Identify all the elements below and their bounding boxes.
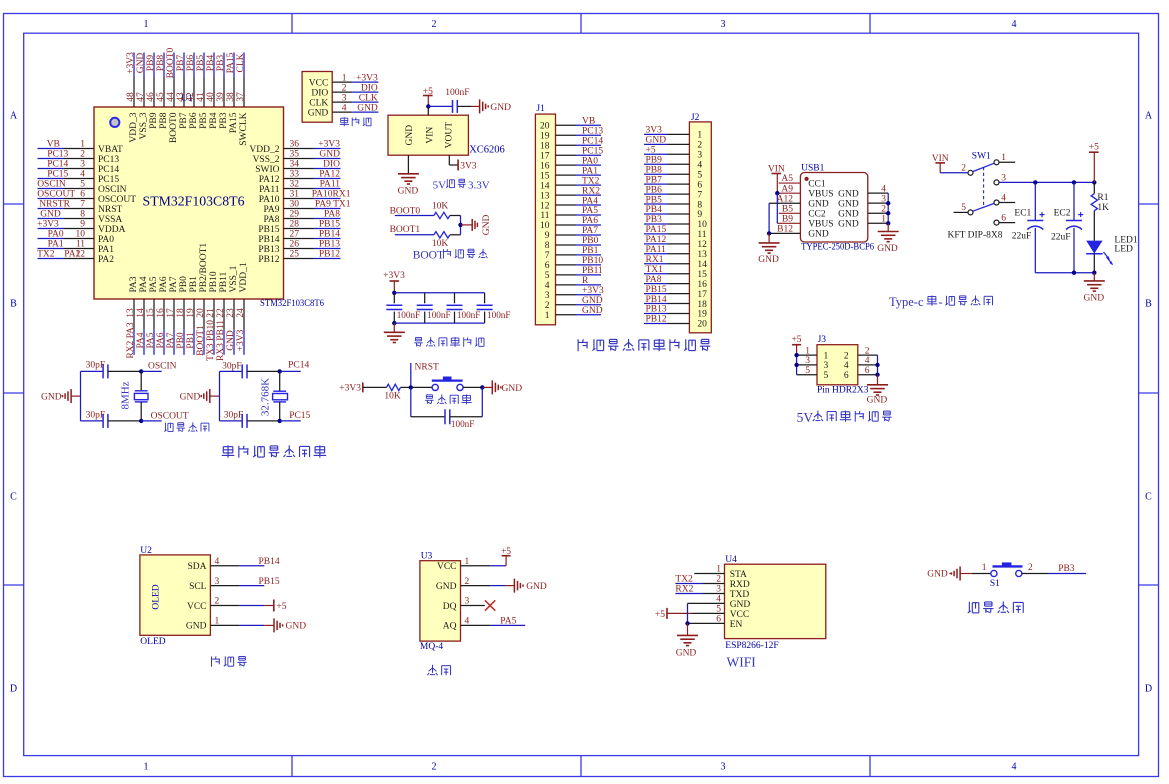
svg-text:PA15: PA15	[229, 112, 239, 133]
J3 right pins wires	[858, 346, 880, 377]
caption BOOT setting circuit	[413, 249, 488, 262]
U1 pin 45 (PB8) top	[156, 53, 169, 129]
U1 pin 23 (VSS_1) bottom	[226, 265, 239, 354]
svg-text:2: 2	[716, 575, 721, 585]
svg-text:3: 3	[805, 356, 810, 366]
svg-text:B: B	[1145, 299, 1152, 310]
svg-text:LED: LED	[1114, 245, 1133, 255]
USB1 pin A9 wire	[777, 184, 800, 194]
svg-text:TX3 PB10: TX3 PB10	[206, 320, 216, 361]
U1 pin 28 (PB15) right	[258, 220, 340, 235]
svg-text:Type-c: Type-c	[889, 295, 924, 309]
svg-text:PB11: PB11	[219, 271, 229, 292]
ground at J3	[867, 375, 888, 406]
svg-text:PB1: PB1	[186, 332, 196, 349]
svg-text:PB15: PB15	[258, 225, 279, 235]
ground below USB1 left	[758, 233, 779, 265]
U1 pin 25 (PB12) right	[258, 250, 340, 265]
wire VBUS vertical	[775, 191, 779, 223]
svg-text:5: 5	[545, 271, 550, 281]
svg-text:PB14: PB14	[258, 235, 279, 245]
svg-text:GND: GND	[180, 392, 201, 402]
svg-text:TX2: TX2	[675, 575, 693, 585]
svg-text:PC13: PC13	[582, 126, 603, 136]
svg-text:PB7: PB7	[179, 112, 189, 129]
svg-text:GND: GND	[927, 570, 948, 580]
svg-text:20: 20	[697, 320, 707, 330]
svg-text:42: 42	[186, 92, 196, 102]
svg-text:PB10: PB10	[209, 271, 219, 292]
svg-text:2: 2	[80, 150, 85, 160]
J1 pin 12 wire net PA4	[556, 196, 602, 206]
svg-text:PA6: PA6	[156, 332, 166, 348]
svg-text:PA2: PA2	[98, 255, 114, 265]
svg-text:100nF: 100nF	[397, 310, 421, 320]
svg-text:RXD: RXD	[730, 580, 750, 590]
svg-text:CLK: CLK	[236, 53, 246, 72]
svg-text:PA4: PA4	[582, 196, 598, 206]
svg-text:GND: GND	[405, 125, 415, 146]
capacitor 30pF bottom-right	[220, 410, 280, 428]
header J3 body	[817, 335, 858, 385]
svg-text:DIO: DIO	[361, 83, 378, 93]
USB1 pin A5 stub	[779, 174, 801, 184]
svg-text:RX2 PA3: RX2 PA3	[126, 322, 136, 359]
svg-text:34: 34	[290, 160, 300, 170]
wire 32k left rail	[219, 371, 221, 421]
svg-text:9: 9	[80, 220, 85, 230]
J1 pin 8 wire net PB0	[556, 236, 602, 246]
capacitor EC2 22uF	[1051, 182, 1083, 272]
label TYPEC-250D-BCP6	[801, 243, 874, 253]
svg-text:6: 6	[716, 615, 721, 625]
svg-text:J3: J3	[818, 335, 827, 345]
U1 pin 43 (PB7) top	[176, 53, 189, 129]
svg-text:GND: GND	[40, 210, 61, 220]
svg-text:100nF: 100nF	[487, 310, 511, 320]
svg-text:3: 3	[721, 19, 726, 30]
regulator ground pin wire	[398, 155, 419, 196]
svg-text:PB4: PB4	[209, 112, 219, 129]
svg-text:PC14: PC14	[47, 160, 68, 170]
svg-text:5: 5	[805, 366, 810, 376]
U1 pin 48 (VDD_3) top	[126, 52, 139, 143]
svg-text:GND: GND	[838, 220, 859, 230]
svg-text:PB8: PB8	[156, 55, 166, 72]
svg-text:GND: GND	[877, 244, 898, 254]
J2 pin 10 wire net PB3	[644, 215, 689, 225]
svg-text:GND: GND	[308, 108, 329, 118]
resistor 10K reset	[384, 384, 410, 401]
svg-text:+3V3: +3V3	[383, 271, 405, 281]
oled module U2 body	[140, 546, 211, 647]
svg-text:46: 46	[146, 92, 156, 102]
net label BOOT0 wire	[390, 206, 434, 216]
U1 pin 30 (PA9) right	[263, 200, 350, 215]
J1 pin 18 wire net PC14	[556, 136, 604, 146]
svg-text:NRST: NRST	[415, 362, 439, 372]
download port pin 3 wire to CLK	[332, 93, 378, 103]
svg-text:GND: GND	[502, 384, 523, 394]
svg-text:PA2: PA2	[64, 250, 80, 260]
J1 pin 20 wire net VB	[556, 117, 602, 127]
svg-text:PA9: PA9	[263, 205, 279, 215]
svg-text:STM32F103C8T6: STM32F103C8T6	[260, 299, 324, 309]
svg-text:30pF: 30pF	[86, 360, 106, 370]
J2 pin 19 wire net PB13	[644, 305, 689, 315]
power 3V3 output	[449, 155, 477, 171]
svg-text:30pF: 30pF	[222, 361, 242, 371]
svg-text:PA3: PA3	[129, 276, 139, 292]
svg-text:20: 20	[196, 308, 206, 318]
frame column numbers	[144, 19, 1017, 773]
svg-text:PA5: PA5	[149, 276, 159, 292]
svg-text:PC15: PC15	[289, 411, 310, 421]
J2 pin 16 wire net PA8	[644, 275, 689, 285]
svg-text:2: 2	[844, 351, 849, 361]
svg-text:100nF: 100nF	[457, 310, 481, 320]
svg-text:PB14: PB14	[259, 557, 280, 567]
svg-text:VB: VB	[47, 140, 60, 150]
caption independent key	[968, 601, 1023, 612]
svg-text:+3V3: +3V3	[318, 140, 340, 150]
power +5 top right	[1089, 143, 1099, 183]
svg-text:37: 37	[236, 92, 246, 102]
wire switch output bus	[999, 180, 1097, 184]
USB1 pin B5 stub	[779, 204, 801, 214]
svg-text:OSCIN: OSCIN	[98, 185, 127, 195]
svg-text:VSS_3: VSS_3	[139, 112, 149, 139]
svg-text:PA4: PA4	[136, 332, 146, 348]
U1 pin 11 (PA1) left	[38, 240, 115, 255]
svg-text:44: 44	[166, 92, 176, 102]
ground below U4	[676, 623, 698, 658]
wire 8MHz left rail	[80, 371, 82, 421]
U1 pin 47 (VSS_3) top	[136, 53, 149, 140]
svg-text:+5: +5	[1089, 143, 1099, 153]
svg-text:OSCOUT: OSCOUT	[151, 411, 189, 421]
svg-text:CLK: CLK	[309, 98, 328, 108]
svg-text:PB12: PB12	[646, 315, 667, 325]
wire U4 gnd vertical	[685, 603, 689, 625]
svg-text:PA10RX1: PA10RX1	[312, 190, 351, 200]
U2 pin 4 SDA wire PB14	[210, 557, 279, 567]
U1 pin 18 (PB0) bottom	[176, 276, 189, 355]
svg-text:12: 12	[540, 201, 550, 211]
wifi module U4 body	[725, 555, 826, 639]
U4 pin 4 GND wire	[688, 595, 725, 605]
J1 pin 14 wire net TX2	[556, 176, 602, 186]
svg-text:PC13: PC13	[98, 155, 119, 165]
svg-text:100nF: 100nF	[445, 88, 469, 98]
svg-text:PA4: PA4	[139, 276, 149, 292]
svg-text:PA8: PA8	[263, 215, 279, 225]
svg-text:24: 24	[236, 308, 246, 318]
svg-text:PB5: PB5	[646, 195, 663, 205]
svg-text:GND: GND	[482, 214, 492, 235]
J1 pin 19 wire net PC13	[556, 126, 604, 136]
svg-text:45: 45	[156, 92, 166, 102]
diode LED1	[1086, 236, 1138, 273]
U1 pin 16 (PA6) bottom	[156, 276, 169, 355]
svg-text:PB9: PB9	[146, 55, 156, 72]
capacitor 100nF filter 2	[417, 293, 451, 323]
svg-text:GND: GND	[646, 136, 667, 146]
J2 pin 20 wire net PB12	[644, 315, 689, 325]
svg-text:+5: +5	[791, 335, 801, 345]
svg-text:PA0: PA0	[582, 156, 598, 166]
svg-text:18: 18	[540, 141, 550, 151]
svg-text:4: 4	[342, 103, 347, 113]
svg-text:VDD_1: VDD_1	[239, 262, 249, 292]
header J1 body	[535, 104, 555, 325]
svg-text:PB14: PB14	[319, 230, 340, 240]
svg-text:8: 8	[545, 241, 550, 251]
svg-text:VBAT: VBAT	[98, 145, 123, 155]
svg-text:3: 3	[342, 93, 347, 103]
U3 pin 4 AQ wire PA5	[461, 617, 526, 627]
net PC15	[278, 411, 311, 423]
svg-text:PC13: PC13	[47, 150, 68, 160]
label ESP8266-12F	[725, 641, 778, 651]
U3 pin 3 DQ no-connect	[461, 597, 496, 611]
svg-text:VSS_2: VSS_2	[253, 155, 280, 165]
wire key to PB3	[1022, 564, 1086, 574]
svg-text:A: A	[10, 111, 18, 122]
svg-text:2: 2	[432, 19, 437, 30]
connector P1 download port body	[302, 72, 332, 123]
svg-text:7: 7	[545, 251, 550, 261]
svg-text:PB4: PB4	[646, 205, 663, 215]
U1 pin 32 (PA11) right	[259, 180, 340, 195]
svg-text:+3V3: +3V3	[356, 73, 378, 83]
U1 pin 39 (PB3) top	[216, 53, 229, 129]
svg-text:A: A	[1145, 111, 1153, 122]
svg-text:PB13: PB13	[258, 245, 279, 255]
svg-text:8MHz: 8MHz	[119, 381, 131, 409]
svg-text:11: 11	[540, 211, 549, 221]
svg-text:STA: STA	[730, 570, 747, 580]
svg-text:6: 6	[80, 190, 85, 200]
svg-text:PB11: PB11	[582, 266, 603, 276]
svg-text:PA12: PA12	[319, 170, 340, 180]
U1 pin 4 (PC15) left	[38, 170, 120, 185]
svg-text:16: 16	[540, 161, 550, 171]
svg-text:6: 6	[545, 261, 550, 271]
svg-text:PB15: PB15	[259, 577, 280, 587]
svg-text:20: 20	[540, 122, 550, 132]
svg-text:TX2: TX2	[582, 176, 600, 186]
header J2 body	[689, 113, 711, 333]
svg-text:10K: 10K	[432, 239, 449, 249]
svg-text:11: 11	[76, 240, 85, 250]
svg-text:BOOT: BOOT	[413, 250, 444, 262]
svg-text:VCC: VCC	[309, 78, 329, 88]
U1 pin 33 (PA12) right	[259, 170, 341, 185]
U2 pin 1 GND wire	[210, 617, 306, 633]
svg-text:PA9 TX1: PA9 TX1	[315, 200, 351, 210]
svg-text:PA5: PA5	[500, 617, 516, 627]
svg-text:GND: GND	[398, 186, 419, 196]
svg-text:XC6206: XC6206	[469, 145, 505, 156]
svg-text:PA7: PA7	[582, 226, 598, 236]
J2 pin 18 wire net PB14	[644, 295, 689, 305]
svg-text:STM32F103C8T6: STM32F103C8T6	[143, 194, 245, 209]
svg-text:5: 5	[961, 203, 966, 213]
svg-text:GND: GND	[838, 189, 859, 199]
svg-text:1: 1	[144, 19, 149, 30]
svg-text:4: 4	[716, 595, 721, 605]
svg-text:C: C	[1145, 492, 1152, 503]
U4 pin 5 VCC wire +5	[655, 605, 725, 620]
J2 pin 8 wire net PB5	[644, 195, 689, 205]
svg-text:2: 2	[342, 83, 347, 93]
svg-text:PB15: PB15	[319, 220, 340, 230]
U1 pin 19 (PB1) bottom	[186, 276, 199, 355]
crystal Y2 32.768K	[260, 371, 288, 421]
svg-text:GND: GND	[490, 103, 511, 113]
svg-text:3V3: 3V3	[646, 126, 663, 136]
svg-text:6: 6	[865, 366, 870, 376]
svg-text:PB6: PB6	[646, 185, 663, 195]
caption 5V external backup power	[797, 410, 892, 425]
svg-text:2: 2	[432, 762, 437, 773]
U1 pin 24 (VDD_1) bottom	[236, 262, 249, 355]
download port pin 2 wire to DIO	[332, 83, 378, 93]
caption Type-c power circuit	[889, 295, 992, 309]
svg-text:PA5: PA5	[582, 206, 598, 216]
svg-text:+3V3: +3V3	[339, 384, 361, 394]
svg-text:1K: 1K	[1097, 203, 1109, 213]
svg-text:VB: VB	[582, 117, 595, 127]
svg-text:+3V3: +3V3	[236, 329, 246, 351]
svg-text:PA6: PA6	[582, 216, 598, 226]
svg-text:SWCLK: SWCLK	[239, 112, 249, 145]
resistor 10K upper	[432, 202, 461, 219]
svg-text:R: R	[582, 276, 589, 286]
J1 pin 15 wire net PA1	[556, 166, 602, 176]
svg-text:48: 48	[126, 92, 136, 102]
svg-text:36: 36	[290, 140, 300, 150]
svg-text:PA1: PA1	[48, 240, 64, 250]
svg-text:1: 1	[982, 563, 987, 573]
J1 pin 1 wire net GND	[556, 306, 603, 316]
svg-text:KFT DIP-8X8: KFT DIP-8X8	[948, 231, 1003, 241]
power +5 at regulator input	[423, 87, 433, 106]
svg-text:4: 4	[80, 170, 85, 180]
svg-text:2: 2	[881, 204, 886, 214]
svg-text:6: 6	[844, 371, 849, 381]
J2 pin 17 wire net PB15	[644, 285, 689, 295]
svg-text:CLK: CLK	[359, 93, 378, 103]
svg-text:1: 1	[697, 131, 702, 141]
U1 pin 27 (PB14) right	[258, 230, 340, 245]
net OSCOUT	[139, 411, 189, 423]
svg-text:2: 2	[215, 597, 220, 607]
svg-text:16: 16	[697, 280, 707, 290]
svg-text:3: 3	[824, 361, 829, 371]
U1 pin 37 (SWCLK) top	[236, 53, 249, 146]
switch SW1	[954, 152, 1016, 226]
svg-text:PA10: PA10	[259, 195, 280, 205]
svg-text:OSCIN: OSCIN	[148, 361, 177, 371]
svg-text:Pin HDR2X3: Pin HDR2X3	[817, 385, 869, 395]
U1 pin 9 (VDDA) left	[37, 220, 125, 235]
svg-text:23: 23	[226, 308, 236, 318]
svg-text:43: 43	[176, 92, 186, 102]
U1 pin 36 (VDD_2) right	[249, 140, 340, 155]
svg-text:28: 28	[290, 220, 300, 230]
J2 pin 15 wire net TX1	[644, 265, 689, 275]
svg-text:GND: GND	[867, 396, 888, 406]
svg-text:OLED: OLED	[151, 584, 161, 609]
svg-text:PA8: PA8	[324, 210, 340, 220]
svg-text:1: 1	[716, 565, 721, 575]
svg-text:5: 5	[716, 605, 721, 615]
U1 pin 46 (PB9) top	[146, 53, 159, 129]
svg-text:PB0: PB0	[582, 236, 599, 246]
power gnd of boot circuit	[461, 214, 492, 235]
J2 pin 7 wire net PB6	[644, 185, 689, 195]
USB1 pin B9 wire	[777, 214, 800, 224]
U1 pin 35 (VSS_2) right	[253, 150, 341, 165]
svg-text:VCC: VCC	[437, 562, 457, 572]
U2 pin 3 SCL wire PB15	[210, 577, 279, 587]
U1 pin 40 (PB4) top	[206, 53, 219, 129]
svg-text:10: 10	[540, 221, 550, 231]
svg-text:PB2/BOOT1: PB2/BOOT1	[199, 243, 209, 293]
svg-text:PC15: PC15	[98, 175, 119, 185]
power gnd reset right	[482, 380, 522, 394]
svg-text:PA1: PA1	[98, 245, 114, 255]
USB1 pin A12 wire	[769, 194, 800, 204]
svg-text:VOUT: VOUT	[445, 122, 455, 149]
svg-text:PB10: PB10	[582, 256, 603, 266]
svg-text:25: 25	[290, 250, 300, 260]
net NRST	[409, 362, 439, 389]
svg-text:C: C	[10, 492, 17, 503]
svg-text:PC15: PC15	[47, 170, 68, 180]
U4 pin 2 RXD wire TX2	[675, 575, 724, 585]
svg-text:22uF: 22uF	[1051, 233, 1071, 243]
resistor 10K lower	[432, 232, 461, 249]
J2 pin 11 wire net PA15	[644, 225, 689, 235]
svg-text:2: 2	[865, 346, 870, 356]
svg-text:4: 4	[865, 356, 870, 366]
svg-text:2: 2	[697, 141, 702, 151]
svg-text:PC14: PC14	[288, 360, 309, 370]
svg-text:B: B	[10, 299, 17, 310]
frame row letters	[10, 111, 1153, 695]
resistor R1 1K	[1091, 182, 1109, 240]
svg-text:-: -	[939, 295, 943, 309]
capacitor 100nF filter 4	[477, 293, 511, 323]
svg-text:PC15: PC15	[582, 146, 603, 156]
svg-text:PB0: PB0	[179, 276, 189, 293]
U1 pin 10 (PA0) left	[38, 230, 115, 245]
svg-text:1: 1	[465, 557, 470, 567]
U1 pin 2 (PC13) left	[38, 150, 120, 165]
svg-text:OSCOUT: OSCOUT	[37, 190, 75, 200]
svg-text:1: 1	[342, 73, 347, 83]
svg-text:17: 17	[540, 151, 550, 161]
svg-text:GND: GND	[41, 392, 62, 402]
svg-text:GND: GND	[357, 103, 378, 113]
svg-text:11: 11	[697, 230, 706, 240]
U1 pin 34 (SWIO) right	[255, 160, 340, 175]
svg-text:BOOT0: BOOT0	[166, 47, 176, 78]
svg-text:VSS_1: VSS_1	[229, 265, 239, 292]
